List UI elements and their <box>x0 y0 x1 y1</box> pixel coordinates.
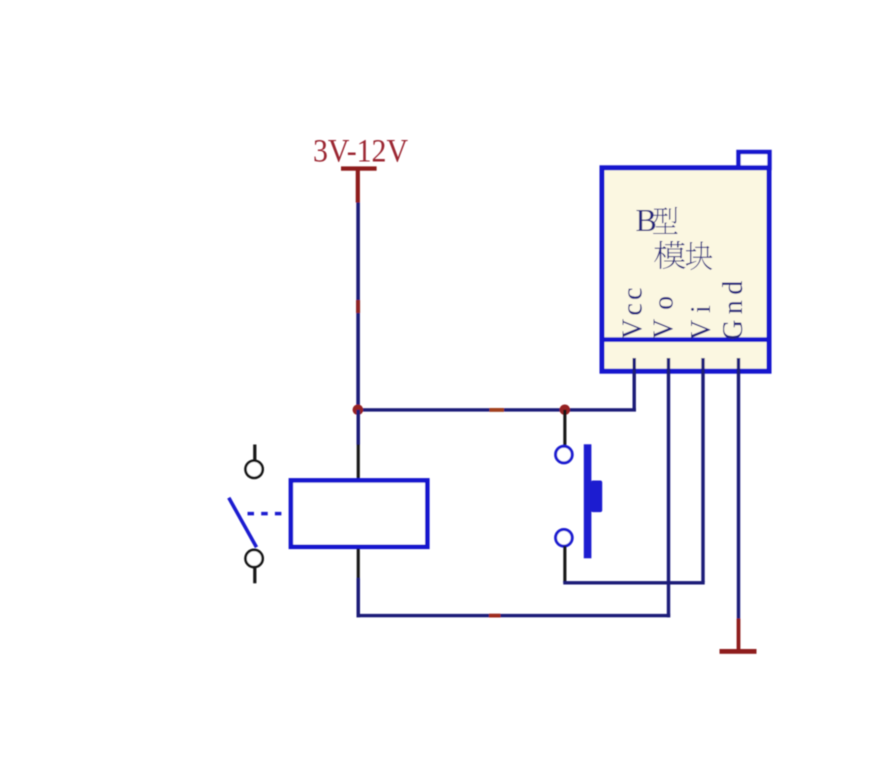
wire: relay top lead (black) <box>357 445 360 479</box>
wire: power vertical <box>356 203 360 410</box>
pin 1 Vcc wire <box>633 358 636 410</box>
push button S2 bottom terminal <box>556 530 573 547</box>
switch SW1 lever <box>229 498 257 548</box>
switch SW1 bottom stub <box>253 568 256 584</box>
pin 2 Vo wire <box>667 358 670 617</box>
switch SW1 top stub <box>253 445 256 462</box>
module bottom divider <box>600 337 772 342</box>
svg-text:Vcc: Vcc <box>618 284 649 339</box>
switch SW1 linkage dashes <box>248 512 283 516</box>
junction node A <box>353 405 364 416</box>
svg-text:Gnd: Gnd <box>718 275 749 340</box>
red mark on power vertical wire <box>356 300 360 313</box>
push button S2 actuator bar <box>584 444 592 558</box>
relay coil K1 box <box>291 480 427 546</box>
svg-text:B: B <box>636 202 657 238</box>
red mark on bottom wire <box>489 614 501 618</box>
ground bar <box>720 649 757 654</box>
svg-text:3V-12V: 3V-12V <box>313 134 408 170</box>
wire: relay bottom lead (black) <box>357 549 360 579</box>
module label 模 <box>654 241 685 269</box>
wire: button bottom (black) <box>563 546 566 583</box>
switch SW1 bottom contact <box>246 550 263 567</box>
module label 型 <box>653 207 678 234</box>
wire: relay bottom to bottom line (navy) <box>357 578 361 617</box>
wire: button to Vi pin <box>563 581 704 584</box>
module U1 tab <box>739 152 770 168</box>
push button S2 top terminal <box>556 446 573 463</box>
power rail stem <box>356 169 360 203</box>
svg-text:Vi: Vi <box>686 297 717 340</box>
pin 3 Vi wire <box>701 358 704 582</box>
power rail bar <box>341 166 377 170</box>
wire: bottom horizontal line to Vo <box>357 614 671 617</box>
wire: junction A down (navy) <box>357 410 361 445</box>
push button S2 actuator bump <box>591 481 602 513</box>
svg-text:Vo: Vo <box>649 283 680 339</box>
wire: horizontal power line <box>356 408 636 411</box>
wire: junction B to button (black) <box>563 410 566 446</box>
ground stem (red) <box>737 619 741 651</box>
junction node B <box>560 405 571 416</box>
pin 4 Gnd wire <box>737 358 740 619</box>
switch SW1 top contact <box>246 461 263 478</box>
module U1 box <box>602 168 769 371</box>
module label 块 <box>686 241 712 270</box>
red mark on horizontal power wire <box>489 408 504 412</box>
